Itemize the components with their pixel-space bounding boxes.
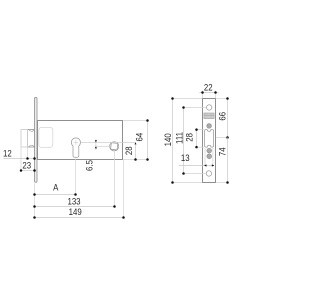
extension lines slot top/bottom xyxy=(196,130,204,148)
dimension 111 (screw hole centers) xyxy=(174,106,185,175)
extension line slot axis (right) xyxy=(216,137,228,139)
centerline hub axis xyxy=(96,145,110,147)
extension line body top right xyxy=(123,120,148,122)
svg-text:6.5: 6.5 xyxy=(84,160,95,171)
svg-text:22: 22 xyxy=(204,82,213,93)
top fixing screw hole xyxy=(207,105,212,110)
faceplate edge view xyxy=(35,98,38,183)
bottom fixing screw hole xyxy=(206,171,211,176)
dimension 6.5 (cylinder axis to hub axis) xyxy=(84,139,97,171)
dimension 133 (hub backset) xyxy=(33,196,116,208)
svg-text:140: 140 xyxy=(162,133,173,146)
faceplate front view xyxy=(203,99,216,183)
extension line below cylinder xyxy=(75,158,77,195)
svg-text:28: 28 xyxy=(184,133,195,142)
dimension 28 (slot height, side view) xyxy=(184,128,198,148)
follower hub (circle with square spindle hole) xyxy=(110,142,119,151)
extension lines for 22 xyxy=(203,91,216,98)
extension line body bottom right xyxy=(123,159,148,161)
dimension 28 (cylinder axis to body bottom) xyxy=(123,142,136,160)
extension line body right end xyxy=(123,160,125,218)
inner cavity (rounded slot in body) xyxy=(39,127,53,147)
adjusting screw (hatched) lower xyxy=(207,154,212,159)
extension lines screw hole centers xyxy=(183,108,206,174)
extension lines slot width xyxy=(205,148,213,166)
bolt opening slot (with guide notches) xyxy=(205,130,214,148)
svg-text:A: A xyxy=(53,182,58,193)
svg-text:13: 13 xyxy=(181,152,190,163)
svg-text:28: 28 xyxy=(123,146,134,155)
latch bolt extended position (phantom) xyxy=(21,130,28,148)
extension line below hub xyxy=(114,151,116,207)
svg-text:66: 66 xyxy=(217,112,228,121)
dimension A (cylinder backset) xyxy=(33,182,77,196)
dimension 64 (body height) xyxy=(134,119,149,161)
extension line phantom latch tip xyxy=(20,147,22,170)
latch front view (hatched) xyxy=(204,113,214,119)
dimension 66 (plate top to slot axis) xyxy=(217,97,229,139)
svg-text:64: 64 xyxy=(134,133,145,142)
centerline cylinder axis xyxy=(81,141,136,143)
svg-text:74: 74 xyxy=(217,147,228,156)
adjusting screw (hatched) middle xyxy=(207,148,212,153)
adjusting screw (hatched) upper xyxy=(207,124,212,129)
dimension 74 (slot axis to plate bottom) xyxy=(217,138,229,184)
svg-text:133: 133 xyxy=(67,196,80,207)
svg-text:149: 149 xyxy=(69,206,82,217)
latch bolt (edge view, projected) xyxy=(28,130,35,148)
extension line faceplate face xyxy=(34,183,36,218)
svg-text:23: 23 xyxy=(22,160,31,171)
extension lines plate top/bottom (left and right) xyxy=(172,99,228,183)
lock body xyxy=(38,121,123,160)
dimension 22 (faceplate width) xyxy=(199,82,218,94)
svg-text:12: 12 xyxy=(3,148,12,159)
euro cylinder hole xyxy=(71,138,80,157)
dimension 12 (latch projection) xyxy=(3,148,36,160)
dimension 140 (faceplate height) xyxy=(162,97,173,184)
dimension 149 (overall depth) xyxy=(33,206,125,218)
dimension 13 (slot width) xyxy=(179,152,215,167)
dimension 23 (extended latch projection) xyxy=(20,160,36,172)
extension line latch tip xyxy=(27,147,29,158)
